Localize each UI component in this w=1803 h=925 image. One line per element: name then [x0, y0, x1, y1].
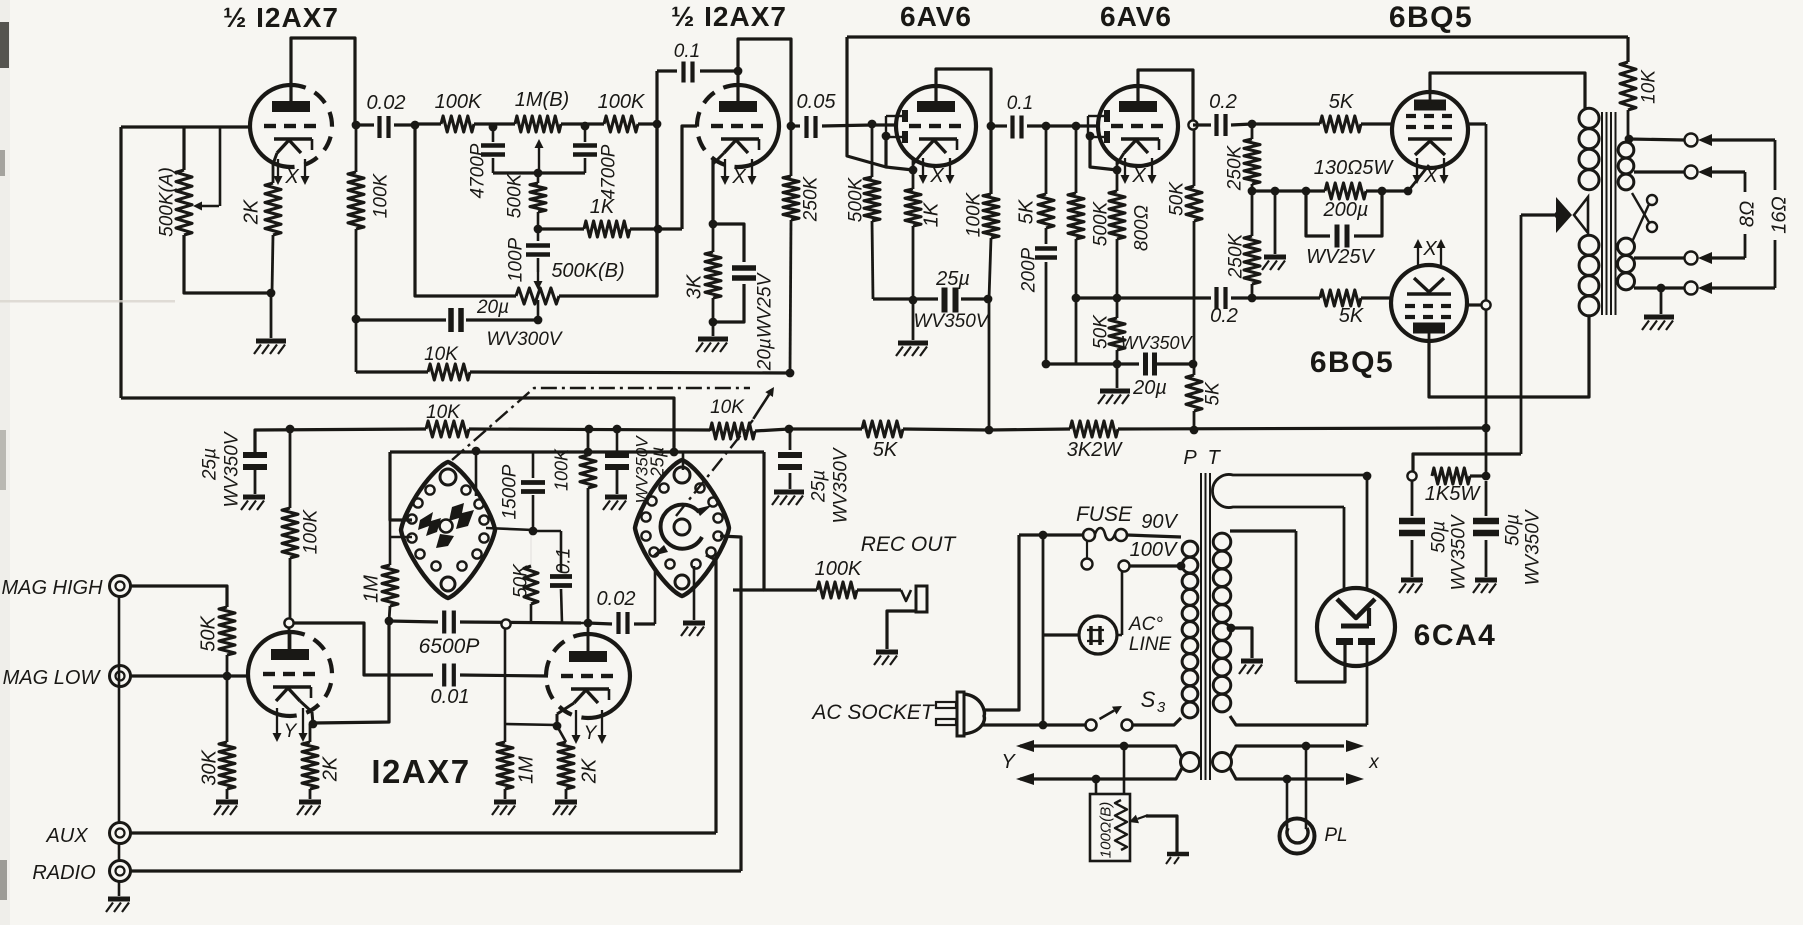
- resistor 50K attenuator: [219, 607, 235, 655]
- pentode 6BQ5 top: [1392, 92, 1468, 168]
- capacitor 0.02 coupling: [352, 121, 361, 130]
- svg-text:10K: 10K: [426, 402, 461, 423]
- cathode lead 6CA4 to B+: [1366, 476, 1369, 589]
- speaker tap 8 ohm top: [1634, 170, 1684, 173]
- svg-text:Y: Y: [1001, 751, 1016, 773]
- rotary switch wafer S2: [635, 460, 729, 596]
- svg-text:1K: 1K: [590, 196, 616, 218]
- svg-text:4700P: 4700P: [599, 144, 620, 199]
- svg-text:1K: 1K: [921, 201, 943, 227]
- svg-text:100K: 100K: [598, 91, 646, 113]
- svg-text:MAG LOW: MAG LOW: [3, 667, 102, 689]
- svg-text:0.2: 0.2: [1209, 91, 1237, 113]
- capacitor 0.01: [442, 664, 446, 687]
- svg-text:X: X: [284, 166, 299, 188]
- diode plates V4: [1104, 110, 1110, 122]
- wire left vertical feedback: [119, 127, 122, 398]
- potentiometer 500K(B): [516, 288, 559, 304]
- svg-text:100K: 100K: [371, 172, 392, 218]
- wire tone left leg: [415, 125, 516, 296]
- PT heater winding Y (primary side): [1181, 753, 1200, 772]
- resistor 5K plate chain bottom: [1193, 364, 1196, 375]
- node cathode V3: [909, 166, 918, 175]
- wire screen bottom 6BQ5: [1467, 303, 1481, 306]
- resistor 5K grid stop: [1045, 126, 1048, 194]
- svg-text:20µ: 20µ: [1132, 377, 1167, 399]
- wire y364 row: [1046, 362, 1139, 365]
- wire B+ link to OPT CT: [1413, 454, 1521, 476]
- svg-text:100P: 100P: [506, 237, 527, 282]
- humdinger pot 100ohm(B): [1123, 746, 1126, 794]
- wire grid V1 bus: [121, 125, 251, 128]
- svg-text:X: X: [731, 166, 746, 188]
- svg-text:3K2W: 3K2W: [1067, 439, 1124, 461]
- OPT core: [1601, 112, 1603, 315]
- bus y451: [390, 450, 764, 453]
- resistor 2K cathode VB: [557, 726, 566, 742]
- svg-text:X: X: [1422, 238, 1437, 260]
- wire phase splitter row y298: [1076, 296, 1211, 299]
- wire diode to cathode: [886, 137, 913, 170]
- dash-dot switch link 1: [452, 388, 750, 460]
- resistor 1K tone: [538, 227, 584, 230]
- svg-text:5K: 5K: [1329, 91, 1355, 113]
- svg-text:2K: 2K: [579, 757, 601, 784]
- resistor 100K rec out: [817, 582, 857, 598]
- node cathode VB: [553, 722, 562, 731]
- ground bias rail: [1274, 191, 1277, 254]
- svg-text:5K: 5K: [1016, 198, 1038, 224]
- resistor 100K series 2: [604, 116, 638, 132]
- resistor 5K grid bottom 6BQ5: [1252, 296, 1320, 299]
- svg-text:I2AX7: I2AX7: [371, 753, 470, 790]
- svg-text:100K: 100K: [552, 448, 572, 491]
- PT HV secondary winding: [1213, 533, 1231, 551]
- svg-text:2K: 2K: [241, 198, 263, 225]
- svg-text:250K: 250K: [1226, 232, 1247, 279]
- capacitor 0.1 coupling V3-V4: [991, 124, 1007, 127]
- svg-text:0.2: 0.2: [1210, 305, 1238, 327]
- capacitor 0.2 upper: [1214, 114, 1218, 136]
- ground cathode V2: [712, 322, 715, 336]
- capacitor 200u WV25V: [1306, 191, 1330, 236]
- svg-text:WV350V: WV350V: [1449, 513, 1470, 590]
- heater X bottom 6BQ5: [1417, 248, 1419, 265]
- triode V1 (1/2 12AX7): [291, 85, 332, 167]
- B+ line and 1K5W: [1407, 471, 1416, 480]
- triode VA 12AX7: [290, 632, 332, 716]
- svg-text:200µ: 200µ: [1323, 199, 1369, 221]
- wire 10K row upper: [356, 370, 428, 373]
- resistor 500K grid V3: [871, 124, 874, 177]
- plate lead right 6CA4: [1366, 645, 1369, 725]
- heater Y arrows VA: [276, 708, 278, 733]
- resistor 250K lower: [1251, 191, 1254, 236]
- svg-text:500K(B): 500K(B): [551, 260, 624, 282]
- capacitor 0.2 lower: [1214, 287, 1218, 309]
- rotor S2: [661, 505, 702, 549]
- wire 16 ohm loop: [1774, 140, 1777, 288]
- svg-text:0.1: 0.1: [554, 548, 575, 574]
- svg-text:Y: Y: [284, 721, 298, 742]
- plate node VA: [288, 628, 291, 649]
- svg-text:WV350V: WV350V: [222, 430, 243, 507]
- capacitor 50u WV350V first: [1411, 481, 1414, 516]
- resistor 100K driver plate load: [587, 429, 590, 455]
- resistor 1K cathode V3: [912, 170, 915, 189]
- svg-text:1M: 1M: [361, 575, 383, 603]
- svg-text:6AV6: 6AV6: [900, 1, 972, 32]
- resistor 1M S1: [382, 565, 398, 606]
- bias rail y191: [1252, 189, 1325, 192]
- svg-text:500K: 500K: [505, 172, 526, 218]
- wire 0.02 to S2: [654, 570, 657, 624]
- plate lead left 6CA4: [1296, 645, 1345, 682]
- wire grid V3: [872, 123, 897, 126]
- svg-text:500K(A): 500K(A): [157, 167, 178, 237]
- resistor 10K (A): [428, 364, 470, 380]
- svg-text:30K: 30K: [199, 749, 221, 786]
- svg-text:X: X: [1131, 165, 1146, 187]
- svg-text:130Ω5W: 130Ω5W: [1314, 157, 1395, 179]
- resistor 130ohm 5W: [1325, 183, 1366, 199]
- diode plates V3: [902, 110, 908, 122]
- wire RADIO riser: [131, 869, 741, 872]
- OPT primary winding upper: [1579, 108, 1599, 128]
- capacitor 20u WV25V: [713, 224, 744, 262]
- resistor 2K cathode V1: [265, 183, 281, 235]
- resistor 100K plate load VA: [289, 558, 292, 618]
- feedback bus top: [847, 35, 1628, 38]
- HV bottom lead: [1230, 716, 1367, 725]
- capacitor 200P: [1045, 228, 1048, 244]
- PT core: [1200, 473, 1202, 780]
- wire 100K bottom to PSU bus: [988, 299, 991, 430]
- capacitor 0.02 driver: [588, 623, 612, 624]
- cathode lead top 6BQ5: [1409, 165, 1429, 190]
- wire AUX riser: [131, 831, 716, 834]
- resistor 500K tone: [537, 173, 540, 183]
- wire S1 right pin network: [529, 527, 538, 536]
- speaker tap 16 ohm top: [1629, 139, 1684, 140]
- svg-text:REC OUT: REC OUT: [861, 533, 958, 556]
- resistor 10K feedback: [1626, 37, 1629, 62]
- wire S1 left pins: [390, 452, 412, 520]
- resistor 2K cathode VA: [309, 724, 312, 742]
- heater X top 6BQ5: [1416, 158, 1418, 175]
- svg-text:AC SOCKET: AC SOCKET: [810, 701, 936, 724]
- resistor 10K (C): [710, 423, 755, 439]
- pilot lamp AC LINE: [1079, 616, 1117, 654]
- wire plate V2 to 0.05 node: [736, 71, 739, 104]
- speaker tap common bottom: [1634, 286, 1684, 289]
- svg-text:WV350V: WV350V: [831, 446, 852, 523]
- ground S2 center: [693, 566, 696, 620]
- wire pilot to 100V tap: [1121, 572, 1124, 635]
- node cathode V4: [1113, 166, 1122, 175]
- capacitor 50u WV350V second: [1485, 481, 1488, 516]
- capacitor 0.1 S1: [560, 531, 563, 572]
- wire cathode row VA: [313, 621, 389, 723]
- wire 500K(B) wiper down: [537, 300, 540, 320]
- svg-text:PL: PL: [1324, 825, 1347, 846]
- svg-text:5K: 5K: [1203, 381, 1224, 406]
- resistor 10K (B): [426, 421, 469, 437]
- triode V4 6AV6: [1098, 86, 1178, 166]
- svg-text:6BQ5: 6BQ5: [1310, 346, 1394, 379]
- svg-text:1K5W: 1K5W: [1425, 483, 1482, 505]
- svg-text:20µ: 20µ: [476, 297, 509, 318]
- capacitor 0.1 feedback: [700, 69, 738, 72]
- rotor S1: [418, 512, 441, 536]
- svg-text:4700P: 4700P: [468, 143, 489, 198]
- svg-text:8Ω: 8Ω: [1737, 201, 1759, 227]
- wire S2 top pin: [682, 451, 685, 470]
- resistor 100K on 0.02 node drop: [355, 125, 358, 172]
- capacitor 4700P right: [584, 126, 587, 142]
- svg-text:3K: 3K: [684, 273, 706, 299]
- wire grid V4: [1046, 124, 1099, 127]
- speaker tap 8 ohm bottom: [1634, 256, 1684, 259]
- HV center tap: [1227, 624, 1236, 633]
- svg-text:6BQ5: 6BQ5: [1389, 1, 1473, 34]
- pilot lamp PL: [1305, 746, 1308, 829]
- svg-text:6500P: 6500P: [419, 635, 480, 658]
- capacitor 20u WV300V: [356, 318, 446, 321]
- svg-text:800Ω: 800Ω: [1132, 205, 1153, 251]
- node cathode V1 junction: [267, 289, 276, 298]
- potentiometer 1M(B) bass: [515, 116, 561, 132]
- resistor 100K series: [415, 122, 441, 125]
- svg-text:50µ: 50µ: [1503, 514, 1524, 546]
- ground jack bus: [118, 597, 121, 822]
- svg-text:WV25V: WV25V: [1306, 246, 1375, 268]
- svg-text:250K: 250K: [801, 175, 822, 222]
- wire y429 row: [255, 429, 426, 452]
- svg-text:0.05: 0.05: [797, 91, 837, 113]
- svg-text:500K: 500K: [846, 176, 867, 222]
- capacitor 25u WV350V decouple: [785, 425, 794, 434]
- wire OPT center tap to B+: [1521, 213, 1556, 216]
- wire plug top prong to fuse line: [983, 535, 1019, 710]
- wire S1 top pin: [475, 451, 478, 496]
- capacitor 6500P: [442, 611, 446, 634]
- wire diode to cathode V4: [1090, 137, 1117, 170]
- wire 1M VB top: [504, 629, 507, 724]
- rotary switch wafer S1: [401, 462, 495, 598]
- resistor 100K plate load V3: [983, 194, 999, 238]
- svg-text:MAG HIGH: MAG HIGH: [1, 577, 103, 599]
- svg-text:RADIO: RADIO: [32, 862, 95, 884]
- svg-text:100K: 100K: [301, 508, 322, 554]
- svg-text:LINE: LINE: [1129, 634, 1172, 655]
- svg-text:1500P: 1500P: [500, 464, 521, 519]
- resistor 250K plate load V2: [790, 126, 793, 176]
- svg-text:1M(B): 1M(B): [515, 89, 569, 111]
- svg-text:X: X: [929, 165, 944, 187]
- capacitor 1500P: [532, 452, 535, 478]
- triode VB 12AX7: [546, 634, 588, 718]
- svg-text:WV300V: WV300V: [487, 329, 564, 350]
- wire plate V3 loop: [936, 69, 991, 194]
- phase bowtie center tap: [1556, 197, 1572, 233]
- wire plate VB: [587, 623, 590, 651]
- resistor 30K attenuator: [226, 676, 229, 742]
- svg-text:1M: 1M: [516, 756, 538, 784]
- resistor 500K grid return V4: [1075, 126, 1078, 193]
- wire 8 ohm loop: [1744, 172, 1747, 258]
- svg-text:10K: 10K: [1639, 69, 1660, 104]
- wire feedback drop to V3 cathode: [847, 37, 886, 167]
- svg-text:25µ: 25µ: [809, 470, 830, 503]
- switch link arrow: [753, 395, 769, 419]
- svg-text:50K: 50K: [1091, 314, 1112, 349]
- wire plate bottom 6BQ5 to OPT: [1429, 316, 1589, 397]
- svg-text:20µWV25V: 20µWV25V: [755, 271, 776, 371]
- pentode 6BQ5 bottom: [1391, 265, 1467, 341]
- ground speaker common: [1660, 288, 1663, 314]
- svg-text:WV350V: WV350V: [1523, 508, 1544, 585]
- svg-text:WV350V: WV350V: [1120, 333, 1193, 353]
- svg-text:½ I2AX7: ½ I2AX7: [671, 1, 787, 32]
- wire plate VA to 0.01: [294, 623, 433, 675]
- dash-dot switch link 2: [676, 420, 753, 516]
- capacitor 25u WV350V mid: [616, 429, 619, 452]
- wiper arrow to 500K(B): [537, 272, 539, 281]
- jack rec out: [901, 590, 911, 601]
- wire pot bottom to cathode node: [184, 235, 270, 293]
- svg-text:0.02: 0.02: [597, 588, 636, 610]
- triode V3 6AV6: [896, 86, 976, 166]
- svg-text:90V: 90V: [1141, 511, 1178, 533]
- svg-text:Y: Y: [584, 723, 598, 744]
- svg-text:5K: 5K: [1339, 305, 1365, 327]
- resistor 3K cathode V2: [712, 224, 715, 252]
- svg-text:50K: 50K: [1167, 181, 1188, 216]
- PT primary winding: [1182, 541, 1198, 557]
- wire cathode V2: [711, 159, 714, 224]
- svg-text:50K: 50K: [198, 615, 220, 652]
- heater Y arrows VB: [575, 710, 577, 735]
- svg-text:25µ: 25µ: [200, 448, 221, 481]
- svg-text:AUX: AUX: [45, 825, 88, 847]
- heater lead 6CA4: [1343, 507, 1346, 589]
- svg-text:P T: P T: [1183, 447, 1222, 469]
- resistor 50K S1: [530, 531, 532, 572]
- wire S3 to PT primary bottom: [1133, 718, 1181, 725]
- heater arrows X V1: [277, 159, 279, 176]
- resistor 50K plate chain: [1193, 130, 1196, 186]
- resistor 5K dropper: [789, 427, 862, 430]
- svg-text:6AV6: 6AV6: [1100, 1, 1172, 32]
- svg-text:3: 3: [1157, 699, 1166, 716]
- heater hairpin 6CA4: [1212, 475, 1367, 508]
- plates 6CA4: [1336, 638, 1353, 645]
- ground V1 cathode: [256, 339, 286, 344]
- svg-text:0.1: 0.1: [1007, 93, 1033, 114]
- wire plate top 6BQ5 to OPT: [1430, 73, 1585, 108]
- wire grid V2 drop: [682, 126, 697, 229]
- svg-text:100K: 100K: [435, 91, 483, 113]
- svg-text:50K: 50K: [511, 563, 532, 598]
- wire plate V1 to 0.02 node: [291, 38, 355, 125]
- potentiometer 500K(A): [182, 127, 185, 170]
- wire tone rail: [493, 171, 585, 174]
- svg-text:10K: 10K: [424, 344, 459, 365]
- svg-text:AC°: AC°: [1128, 614, 1163, 635]
- wire plate V4 loop: [1138, 70, 1193, 125]
- 100V tap: [1082, 559, 1093, 570]
- resistor 800ohm cathode V4: [1116, 170, 1119, 191]
- wiper 1M(B): [538, 148, 540, 169]
- svg-text:10K: 10K: [710, 397, 745, 418]
- svg-text:WV350V: WV350V: [914, 311, 991, 332]
- svg-text:5K: 5K: [873, 439, 899, 461]
- svg-text:100V: 100V: [1130, 539, 1178, 561]
- svg-text:16Ω: 16Ω: [1769, 196, 1791, 233]
- node cathode VA: [309, 720, 318, 729]
- bus y397 long: [121, 398, 674, 452]
- OPT secondary winding lower: [1618, 238, 1635, 255]
- ground 50K: [1116, 364, 1119, 388]
- ground V3 cathode: [912, 300, 915, 340]
- HV top lead: [1230, 529, 1296, 532]
- svg-text:500K: 500K: [1091, 200, 1112, 246]
- fuse and taps: [1019, 533, 1083, 536]
- wire plug bottom prong to switch: [983, 723, 1086, 726]
- capacitor 25u WV350V left: [243, 452, 267, 458]
- svg-text:0.1: 0.1: [674, 41, 700, 62]
- svg-text:S: S: [1141, 687, 1156, 712]
- svg-text:100K: 100K: [815, 558, 863, 580]
- resistor 3K2W dropper: [989, 429, 1070, 430]
- capacitor 100P: [537, 229, 540, 241]
- capacitor 4700P left: [492, 128, 495, 142]
- scan artifact marks: [0, 22, 9, 68]
- switch S3: [1086, 720, 1097, 731]
- PT heater winding X (secondary side): [1213, 753, 1232, 772]
- svg-text:0.01: 0.01: [431, 686, 470, 708]
- svg-text:0.02: 0.02: [367, 92, 406, 114]
- svg-text:x: x: [1368, 752, 1380, 773]
- wire rec out feed: [764, 452, 817, 590]
- wire MAG LOW: [131, 674, 249, 677]
- wiper arm 500K(A): [219, 127, 222, 206]
- capacitor 0.05 coupling: [791, 124, 800, 127]
- svg-text:½ I2AX7: ½ I2AX7: [223, 2, 339, 33]
- svg-text:2K: 2K: [320, 755, 342, 782]
- vertical screen supply: [1485, 124, 1488, 476]
- svg-text:50µ: 50µ: [1429, 521, 1450, 553]
- svg-text:100K: 100K: [964, 191, 985, 237]
- svg-text:100Ω(B): 100Ω(B): [1098, 802, 1115, 858]
- wire screen top 6BQ5: [1468, 122, 1486, 125]
- OPT primary winding lower: [1579, 235, 1599, 255]
- capacitor 20u WV350V: [1143, 353, 1148, 376]
- svg-text:FUSE: FUSE: [1076, 503, 1133, 526]
- wire 0.1 drop to tone: [655, 71, 658, 124]
- resistor 250K upper: [1251, 124, 1254, 139]
- OPT secondary winding upper: [1618, 142, 1634, 158]
- resistor 50K divider: [1116, 298, 1119, 318]
- wire MAG HIGH: [131, 586, 227, 607]
- secondary strap crossover: [1632, 193, 1650, 224]
- svg-text:25µ: 25µ: [935, 268, 970, 290]
- triode V2: [697, 85, 738, 167]
- wire tone right leg: [559, 124, 657, 296]
- svg-text:6CA4: 6CA4: [1414, 619, 1497, 652]
- resistor 5K grid top 6BQ5: [1252, 122, 1320, 125]
